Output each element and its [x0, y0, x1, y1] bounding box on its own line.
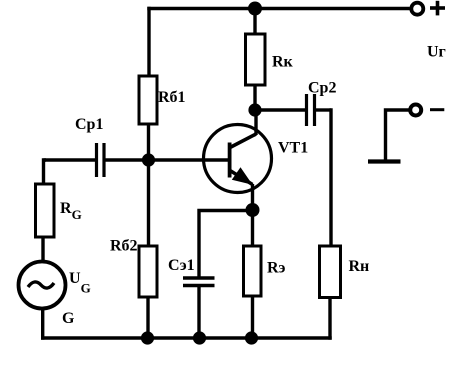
wire emitter node to Сэ1 branch	[199, 211, 253, 278]
svg-text:Rэ: Rэ	[267, 260, 286, 277]
resistor Rб2	[139, 246, 157, 297]
wire Rэ bottom to bottom rail	[251, 296, 254, 338]
svg-text:G: G	[62, 310, 75, 327]
capacitor Сэ1	[183, 278, 215, 338]
label minus sign	[430, 108, 444, 111]
wire minus terminal to ground	[386, 110, 410, 162]
wire Ср2 to Rн	[330, 110, 332, 246]
node collector junction dot	[248, 103, 261, 116]
resistor RG	[36, 184, 55, 237]
capacitor Ср2	[256, 94, 331, 126]
wire RG top to Ср1	[44, 160, 47, 184]
svg-text:Ср1: Ср1	[75, 116, 103, 133]
transistor VT1	[204, 125, 272, 193]
wire top rail to Rк	[253, 9, 256, 35]
generator UG	[19, 262, 66, 309]
node dot bottom rail at Rэ	[245, 331, 258, 344]
ground	[368, 159, 401, 163]
node junction dot top rail / Rк	[248, 2, 262, 16]
wire collector node down into transistor	[254, 110, 257, 135]
resistor Rн	[320, 246, 341, 298]
wire Rн bottom to bottom rail	[328, 298, 331, 340]
wire Rк bottom to collector node	[253, 85, 256, 111]
label plus sign	[430, 1, 445, 16]
wire emitter node to Rэ	[251, 210, 254, 246]
resistor Rб1	[139, 76, 157, 124]
svg-text:Rн: Rн	[349, 258, 370, 275]
wire Rб2 bottom to bottom rail	[146, 297, 149, 338]
node emitter junction dot	[246, 203, 260, 217]
capacitor Ср1	[44, 143, 149, 177]
terminal plus output	[411, 3, 423, 15]
wire bottom rail up to generator UG	[41, 308, 44, 340]
resistor Rк	[246, 34, 266, 85]
wire top rail	[147, 7, 409, 10]
svg-text:Сэ1: Сэ1	[168, 257, 195, 274]
svg-text:Uг: Uг	[427, 44, 446, 61]
svg-text:Ср2: Ср2	[308, 80, 336, 97]
node dot bottom rail at Сэ1	[193, 331, 206, 344]
wire emitter down to emitter node	[251, 184, 254, 212]
wire left drop from top rail to Rб1	[147, 7, 150, 77]
wire Rб1 bottom to node B	[147, 124, 150, 162]
resistor Rэ	[244, 246, 262, 296]
terminal minus output	[410, 105, 421, 116]
wire bottom rail	[41, 336, 332, 339]
node dot bottom rail at Rб2	[141, 331, 154, 344]
wire UG top to RG	[41, 237, 44, 262]
wire base (node B to VT1 base)	[149, 158, 230, 161]
wire node B down to Rб2	[147, 160, 150, 246]
svg-text:VT1: VT1	[278, 140, 308, 157]
svg-text:Rк: Rк	[272, 54, 294, 71]
svg-text:Rб2: Rб2	[110, 238, 138, 255]
node B junction dot (base divider node)	[142, 153, 155, 166]
svg-text:Rб1: Rб1	[158, 89, 186, 106]
